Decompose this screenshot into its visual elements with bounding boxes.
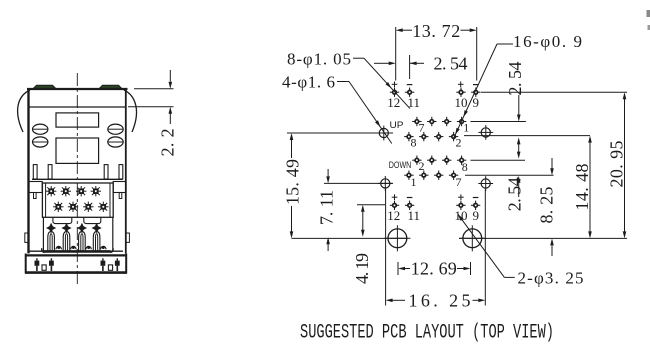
down-hole line left	[324, 182, 393, 184]
contact pin row1 #3 (front view)	[77, 187, 85, 195]
edge artifact 1	[647, 10, 650, 17]
contact pin row2 #4 (front view)	[99, 203, 107, 211]
pin down-row2 #0	[404, 174, 413, 176]
dimension 16.25	[393, 299, 406, 301]
svg-text:SUGGESTED PCB LAYOUT (TOP VIEW: SUGGESTED PCB LAYOUT (TOP VIEW)	[300, 322, 554, 345]
power pin bottom x394.5	[390, 204, 399, 206]
USB spring contact 1	[46, 223, 56, 233]
shoulder stub right	[119, 193, 122, 199]
extension line pin11 up	[409, 55, 411, 79]
LED lens right (green)	[100, 85, 122, 88]
pin up-row2 #2	[434, 136, 443, 138]
contact tail bump 1	[56, 246, 61, 249]
svg-text:1: 1	[411, 175, 417, 189]
pin down-row2 #3	[449, 174, 458, 176]
centerline (front view)	[76, 73, 78, 284]
svg-text:2. 54: 2. 54	[434, 54, 468, 74]
header box	[42, 183, 113, 217]
row line 1 (up row1)	[471, 121, 526, 123]
svg-text:13. 72: 13. 72	[412, 21, 460, 41]
shoulder stub left	[34, 193, 37, 199]
power pin bottom x460.9	[456, 204, 465, 206]
side nub right	[126, 233, 130, 242]
svg-text:DOWN: DOWN	[389, 160, 412, 171]
svg-text:9: 9	[473, 208, 480, 223]
dimension 2.54 horizontal	[374, 62, 389, 64]
pin up-row1 #2	[442, 121, 451, 123]
lower window	[56, 138, 99, 163]
header box inner wall left	[45, 183, 47, 217]
svg-text:1: 1	[463, 120, 469, 134]
svg-text:10: 10	[455, 95, 468, 110]
dimension 20.95	[624, 99, 626, 232]
dimension 8.25	[551, 158, 553, 169]
power pin top x461.0	[456, 91, 465, 93]
svg-text:8: 8	[462, 160, 468, 174]
shell right side	[125, 89, 127, 253]
pin up-row1 #0	[412, 121, 421, 123]
standoff post 4	[119, 165, 123, 179]
body step line	[32, 178, 123, 180]
extension tick left (12.69)	[397, 262, 399, 275]
USB spring contact 4	[92, 223, 102, 233]
dimension 2.54 mid-right	[518, 142, 520, 155]
svg-text:2: 2	[456, 135, 462, 149]
pin down-row2 #2	[434, 174, 443, 176]
svg-text:9: 9	[473, 95, 480, 110]
extension line bottom (2.2)	[128, 106, 174, 108]
row line pins9-10 (top)	[481, 91, 627, 93]
pin down-row1 #3	[457, 159, 466, 161]
row line 3 (down row1)	[471, 159, 526, 161]
pin up-row2 #0	[404, 136, 413, 138]
solder foot 1	[36, 258, 38, 260]
pin down-row1 #1	[427, 159, 436, 161]
divider slot left	[53, 217, 72, 223]
screw boss right lower	[108, 137, 123, 147]
svg-text:4-φ1. 6: 4-φ1. 6	[282, 72, 335, 91]
polarity marks bottom	[392, 196, 398, 198]
svg-text:12. 69: 12. 69	[411, 259, 457, 279]
svg-text:7. 11: 7. 11	[317, 190, 337, 225]
contact tail bump 2	[71, 246, 76, 249]
svg-text:8: 8	[411, 135, 417, 149]
solder foot 3	[102, 258, 104, 260]
solder foot 4	[116, 258, 118, 260]
EMI finger right	[124, 90, 137, 132]
extension line right (16.25)	[484, 190, 486, 306]
svg-text:2-φ3. 25: 2-φ3. 25	[518, 269, 584, 288]
power pin top x394.5	[390, 91, 399, 93]
dimension 4.19	[362, 212, 364, 231]
row line 4 (down row2)	[465, 174, 554, 176]
shell left side	[27, 89, 29, 253]
post foot 2	[108, 265, 112, 270]
power pin top x409.6	[405, 91, 414, 93]
post foot 1	[42, 265, 46, 270]
edge artifact 2	[648, 25, 650, 30]
svg-text:11: 11	[408, 208, 421, 223]
contact pin row2 #3 (front view)	[84, 203, 92, 211]
svg-text:16-φ0. 9: 16-φ0. 9	[513, 32, 582, 51]
dimension 12.69	[405, 268, 410, 270]
pin up-row1 #1	[427, 121, 436, 123]
shoulder box left	[29, 182, 43, 193]
locating hole DOWN-right	[481, 179, 490, 188]
dimension 14.48	[589, 142, 591, 231]
base band upper line	[29, 250, 124, 252]
EMI finger left	[18, 90, 30, 132]
up-hole line left	[287, 132, 393, 134]
board lock hole left	[388, 229, 407, 248]
header box inner wall right	[109, 183, 111, 217]
svg-text:2: 2	[419, 159, 425, 173]
power pin top x475.8	[471, 91, 480, 93]
side nub left	[25, 233, 29, 242]
dimension 15.49	[291, 140, 293, 232]
dimension 2.2 arrows	[169, 70, 171, 82]
svg-text:7: 7	[419, 120, 425, 134]
locating hole UP-right	[481, 128, 490, 137]
extension line pin9 up	[476, 27, 478, 81]
board lock hole right	[463, 229, 482, 248]
power pin bottom x475.6	[471, 204, 480, 206]
screw boss right upper	[108, 124, 123, 134]
header side skirt right	[112, 217, 114, 251]
row line 2 / up-hole line right	[464, 135, 590, 137]
locating hole DOWN-left	[381, 179, 390, 188]
dimension 2.54 top-right	[518, 95, 520, 115]
USB spring contact 2	[61, 223, 71, 233]
contact pin row1 #2 (front view)	[62, 187, 70, 195]
base bottom edge	[25, 271, 127, 274]
power pin bottom x409.6	[405, 204, 414, 206]
dimension 7.11	[327, 169, 329, 177]
extension line pin12 up	[395, 27, 397, 81]
contact pin row1 #4 (front view)	[92, 187, 100, 195]
contact tail bump 4	[101, 246, 106, 249]
base band lower line	[26, 254, 127, 256]
pin up-row1 #3	[457, 121, 466, 123]
leader 8-d1.05	[353, 57, 364, 59]
contact pin row1 #1 (front view)	[47, 187, 55, 195]
leader 16-d0.9	[497, 43, 513, 45]
svg-text:UP: UP	[390, 120, 404, 131]
pin down-row2 #1	[419, 174, 428, 176]
divider slot right	[84, 217, 101, 223]
svg-text:2. 54: 2. 54	[505, 62, 525, 96]
svg-text:8. 25: 8. 25	[537, 187, 557, 224]
leader 4-d1.6	[337, 81, 349, 83]
standoff post 2	[48, 165, 52, 179]
leader 2-d3.25	[504, 276, 514, 278]
contact tail bump 3	[86, 246, 91, 249]
standoff post 3	[104, 165, 108, 179]
base right side	[125, 254, 127, 274]
solder foot 2	[50, 258, 52, 260]
USB spring contact 3	[77, 223, 87, 233]
svg-text:14. 48: 14. 48	[572, 164, 592, 211]
pin up-row2 #3	[449, 136, 458, 138]
svg-text:12: 12	[387, 208, 400, 223]
svg-text:10: 10	[455, 208, 468, 223]
svg-text:20. 95: 20. 95	[607, 141, 627, 188]
extension tick right (12.69)	[470, 262, 472, 275]
svg-text:7: 7	[456, 175, 462, 189]
svg-text:4. 19: 4. 19	[352, 253, 372, 284]
contact baseline strip	[44, 250, 110, 253]
big-hole center line right	[459, 237, 627, 239]
dimension 13.72	[403, 29, 413, 31]
shoulder box right	[113, 182, 126, 193]
LED lens left (green)	[34, 85, 56, 88]
shell top edge	[27, 88, 128, 90]
svg-text:8-φ1. 05: 8-φ1. 05	[287, 49, 351, 68]
svg-text:2. 2: 2. 2	[158, 128, 178, 156]
flange bottom line	[29, 106, 126, 108]
standoff post 1	[33, 165, 37, 179]
extension line top (2.2)	[134, 88, 174, 90]
upper window	[56, 113, 99, 127]
contact pin row2 #1 (front view)	[54, 203, 62, 211]
extension line left (16.25)	[385, 189, 387, 306]
bottom pin row tick line	[357, 204, 385, 206]
screw boss left upper	[33, 124, 48, 134]
pin up-row2 #1	[419, 136, 428, 138]
header side skirt left	[42, 217, 44, 251]
pin down-row1 #2	[442, 159, 451, 161]
big-hole center line left	[292, 237, 408, 239]
pin down-row1 #0	[412, 159, 421, 161]
base left side	[25, 254, 27, 274]
svg-text:2. 54: 2. 54	[505, 177, 525, 211]
screw boss left lower	[33, 137, 48, 147]
contact pin row2 #2 (front view)	[69, 203, 77, 211]
svg-text:15. 49: 15. 49	[283, 159, 303, 205]
locating hole UP-left	[379, 128, 388, 137]
polarity marks top	[392, 83, 398, 85]
svg-text:12: 12	[387, 95, 400, 110]
